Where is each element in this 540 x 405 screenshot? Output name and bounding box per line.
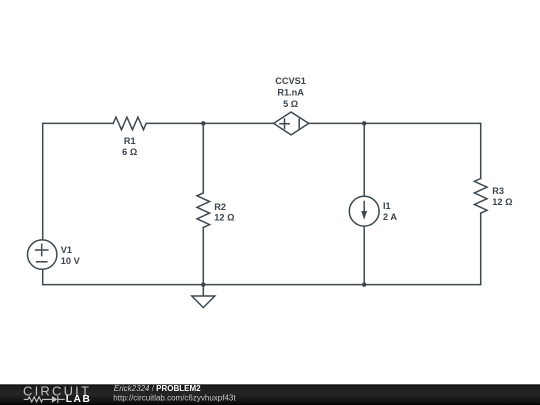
svg-text:LAB: LAB xyxy=(66,394,92,405)
svg-text:I1: I1 xyxy=(383,201,391,211)
svg-text:12 Ω: 12 Ω xyxy=(492,197,512,207)
svg-text:Erick2324 / PROB: Erick2324 / PROBLEM2 xyxy=(114,384,201,393)
svg-text:6 Ω: 6 Ω xyxy=(122,147,137,157)
svg-text:2 A: 2 A xyxy=(383,212,397,222)
svg-text:R3: R3 xyxy=(492,186,504,196)
svg-text:R1: R1 xyxy=(124,136,136,146)
svg-text:CCVS1: CCVS1 xyxy=(275,76,306,86)
svg-text:5 Ω: 5 Ω xyxy=(283,99,298,109)
svg-text:R2: R2 xyxy=(214,202,226,212)
svg-text:12 Ω: 12 Ω xyxy=(214,212,234,222)
svg-text:R1.nA: R1.nA xyxy=(277,87,304,97)
svg-text:10 V: 10 V xyxy=(61,256,81,266)
svg-text:http://circuitlab.com/c6zyvhux: http://circuitlab.com/c6zyvhuxpf43t xyxy=(113,393,236,402)
svg-text:V1: V1 xyxy=(61,245,72,255)
